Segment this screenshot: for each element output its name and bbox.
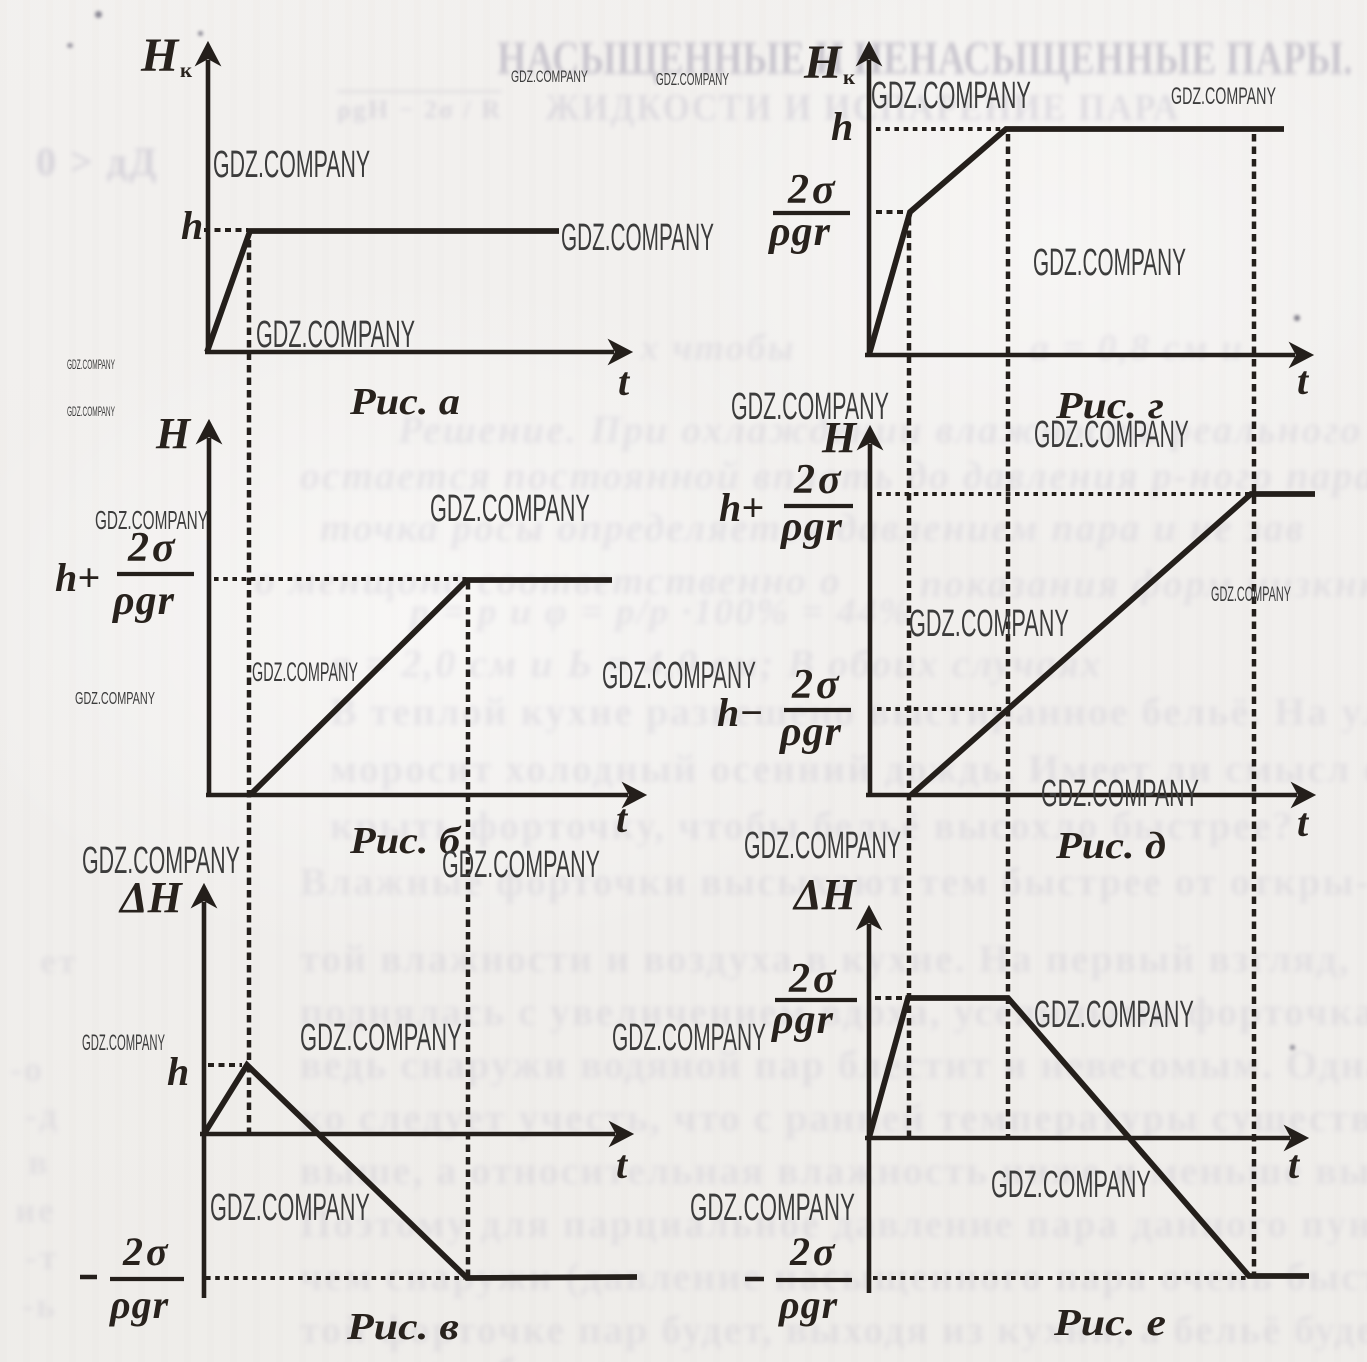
svg-text:ρgr: ρgr [770, 997, 834, 1043]
fig-g y-axis [858, 43, 880, 357]
svg-text:t: t [618, 359, 631, 404]
svg-text:GDZ.COMPANY: GDZ.COMPANY [1171, 83, 1276, 110]
scan speck 2 [67, 43, 73, 48]
fig-v x-axis [200, 1123, 632, 1145]
svg-text:2σ: 2σ [791, 662, 842, 708]
svg-text:к: к [843, 65, 856, 89]
faint headline [497, 31, 1353, 86]
faint bleed-through page text [0, 0, 1367, 1]
faint row r0b [1030, 326, 1244, 370]
svg-text:Рис. а: Рис. а [349, 381, 460, 423]
svg-text:к: к [180, 58, 193, 82]
faint row l4 [300, 1041, 1367, 1088]
svg-text:GDZ.COMPANY: GDZ.COMPANY [871, 74, 1031, 117]
svg-text:ρgr: ρgr [767, 209, 831, 255]
svg-text:2σ: 2σ [788, 956, 839, 1002]
scan speck 4 [1294, 315, 1300, 321]
svg-text:ρgr: ρgr [778, 1282, 838, 1327]
svg-text:GDZ.COMPANY: GDZ.COMPANY [1034, 993, 1194, 1036]
fig-b y-axis [198, 421, 220, 797]
faint row m6 [330, 802, 1294, 849]
svg-text:GDZ.COMPANY: GDZ.COMPANY [256, 313, 415, 356]
svg-text:GDZ.COMPANY: GDZ.COMPANY [252, 656, 358, 687]
svg-text:t: t [616, 796, 629, 841]
svg-text:GDZ.COMPANY: GDZ.COMPANY [82, 839, 240, 882]
svg-text:GDZ.COMPANY: GDZ.COMPANY [1041, 772, 1199, 815]
scan speck 3 [198, 31, 203, 36]
svg-text:GDZ.COMPANY: GDZ.COMPANY [75, 689, 155, 708]
svg-text:Рис. д: Рис. д [1055, 825, 1166, 867]
svg-text:2σ: 2σ [122, 1229, 171, 1274]
fig-g x-axis [865, 344, 1312, 366]
fig-e bottom level dotted [873, 1276, 1246, 1280]
faint row l2 [300, 935, 1351, 982]
svg-text:GDZ.COMPANY: GDZ.COMPANY [67, 357, 115, 372]
svg-text:GDZ.COMPANY: GDZ.COMPANY [909, 602, 1069, 645]
svg-text:h−: h− [717, 690, 763, 735]
faint margin 0>dp [36, 138, 159, 185]
fig-g h dotted level [876, 127, 1004, 131]
fig-v minus sign [80, 1275, 97, 1280]
faint row l10 [330, 1348, 657, 1362]
fig-e x-axis [865, 1127, 1307, 1149]
svg-text:H: H [803, 36, 843, 89]
faint row m4 [330, 688, 1367, 735]
faint row l3 [300, 988, 1367, 1035]
left dotted vertical t2 [466, 582, 471, 1276]
fig-d top level dotted [877, 492, 1249, 496]
svg-text:ΔH: ΔH [792, 870, 858, 919]
svg-text:GDZ.COMPANY: GDZ.COMPANY [82, 1030, 165, 1055]
fig-d fraction bar plus [784, 504, 853, 508]
svg-text:h: h [181, 203, 203, 248]
left dotted vertical t1 [247, 240, 252, 1133]
faint row m2 [320, 504, 1305, 551]
svg-text:2σ: 2σ [793, 457, 844, 503]
fig-d curve [911, 494, 1315, 795]
svg-text:2σ: 2σ [789, 1229, 838, 1274]
fig-g fraction bar [773, 211, 850, 215]
svg-text:t: t [1297, 800, 1310, 845]
fig-d x-axis [866, 784, 1314, 806]
watermarks [0, 0, 1367, 1]
svg-text:GDZ.COMPANY: GDZ.COMPANY [300, 1016, 462, 1059]
svg-text:t: t [1297, 358, 1310, 403]
faint row l1 [300, 858, 1367, 905]
svg-text:GDZ.COMPANY: GDZ.COMPANY [1211, 582, 1291, 606]
svg-text:GDZ.COMPANY: GDZ.COMPANY [95, 506, 208, 535]
fig-a y-axis [197, 43, 219, 354]
fig-d y-axis [859, 427, 881, 797]
svg-text:H: H [140, 29, 180, 82]
scan speck 5 [1290, 1045, 1295, 1050]
fig-v curve [204, 1065, 637, 1278]
svg-text:GDZ.COMPANY: GDZ.COMPANY [612, 1017, 766, 1059]
fig-v bottom level dotted [206, 1276, 464, 1280]
svg-text:h: h [831, 104, 853, 149]
faint row l7 [300, 1200, 1367, 1247]
svg-text:GDZ.COMPANY: GDZ.COMPANY [1034, 412, 1189, 455]
right dotted vertical t1 [907, 218, 912, 1136]
faint row l8 [300, 1253, 1367, 1300]
svg-text:h+: h+ [719, 485, 764, 530]
fig-a h dash [204, 228, 248, 232]
svg-text:GDZ.COMPANY: GDZ.COMPANY [210, 1186, 370, 1229]
fig-b fraction bar [117, 572, 194, 576]
fig-d fraction bar minus [784, 708, 851, 712]
svg-text:h+: h+ [55, 555, 100, 600]
faint row m5 [330, 745, 1367, 792]
svg-text:ρgr: ρgr [778, 709, 842, 755]
fig-g curve [869, 129, 1284, 355]
right dotted vertical t2 [1006, 134, 1011, 1136]
svg-text:ρgr: ρgr [109, 1282, 169, 1327]
faint row c2 [920, 560, 1367, 607]
fig-b x-axis [206, 784, 645, 806]
svg-text:H: H [155, 409, 192, 458]
svg-text:GDZ.COMPANY: GDZ.COMPANY [430, 487, 590, 530]
faint subheadline [545, 86, 1180, 130]
faint row d1 [330, 640, 1103, 687]
fig-a curve [207, 231, 559, 352]
fig-e top dash [875, 996, 905, 1000]
svg-text:GDZ.COMPANY: GDZ.COMPANY [561, 216, 714, 258]
faint formula top-left [337, 90, 502, 125]
svg-text:ρgr: ρgr [111, 578, 175, 624]
svg-text:GDZ.COMPANY: GDZ.COMPANY [67, 404, 115, 419]
faint row c1 [255, 557, 842, 604]
faint row r1 [398, 406, 1367, 453]
fig-d mid level dotted [877, 707, 1004, 711]
scan speck 1 [95, 11, 102, 18]
fig-g sigma dash [876, 210, 906, 214]
right dotted vertical t3 [1252, 134, 1257, 1275]
faint row l9 [300, 1306, 1367, 1353]
svg-text:GDZ.COMPANY: GDZ.COMPANY [656, 70, 729, 90]
svg-text:t: t [1288, 1142, 1301, 1187]
svg-text:ρgr: ρgr [779, 504, 843, 550]
fig-b curve [250, 580, 612, 795]
faint row r0a [640, 326, 796, 370]
fig-e top fraction bar [775, 998, 857, 1002]
svg-text:Рис. е: Рис. е [1053, 1302, 1166, 1344]
svg-text:GDZ.COMPANY: GDZ.COMPANY [731, 385, 889, 428]
svg-text:GDZ.COMPANY: GDZ.COMPANY [602, 655, 756, 697]
svg-text:2σ: 2σ [787, 167, 838, 213]
fig-e minus sign [745, 1277, 764, 1282]
svg-text:GDZ.COMPANY: GDZ.COMPANY [744, 823, 901, 866]
svg-text:h: h [167, 1049, 189, 1094]
faint row m1 [300, 452, 1367, 499]
svg-text:GDZ.COMPANY: GDZ.COMPANY [213, 142, 370, 185]
svg-text:GDZ.COMPANY: GDZ.COMPANY [442, 843, 600, 886]
svg-text:GDZ.COMPANY: GDZ.COMPANY [690, 1186, 855, 1229]
svg-text:GDZ.COMPANY: GDZ.COMPANY [511, 66, 588, 85]
fig-b level dotted [214, 577, 466, 581]
svg-text:GDZ.COMPANY: GDZ.COMPANY [991, 1163, 1151, 1206]
svg-text:Рис. в: Рис. в [346, 1306, 459, 1348]
fig-a x-axis [205, 341, 631, 363]
fig-e curve [869, 998, 1309, 1276]
faint row m3 [410, 590, 912, 634]
fig-e y-axis [858, 907, 880, 1293]
fig-v fraction bar [110, 1277, 184, 1281]
fig-v y-axis [193, 885, 215, 1298]
faint row l6 [300, 1147, 1367, 1194]
faint row l5 [300, 1094, 1367, 1141]
svg-text:t: t [616, 1142, 629, 1187]
faint margin fragments [40, 940, 78, 982]
svg-text:GDZ.COMPANY: GDZ.COMPANY [1033, 241, 1186, 283]
fig-e bottom fraction bar [776, 1278, 852, 1282]
fig-v h dash [208, 1063, 242, 1067]
